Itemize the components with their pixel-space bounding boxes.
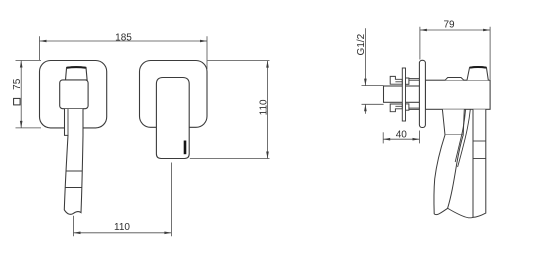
dim 185 ext line right [206,36,208,69]
svg-text:185: 185 [115,33,132,44]
dim 110 right line [267,61,269,159]
arrow square75 top [20,61,23,68]
handle knob (front) [66,67,88,80]
dim 79 arrow left [420,29,427,32]
lever rear curve line A [455,109,465,162]
cartridge housing line bottom inner [406,108,420,110]
handle body (front) [60,80,88,109]
cartridge housing line top outer [406,78,420,80]
dim 79 ext line left [419,27,421,60]
arrow square75 bottom [20,121,23,128]
lever neck (side) [442,109,464,134]
dim 79 line [420,29,490,31]
dim line square75 [20,61,22,128]
nut top inner line [395,81,402,83]
nub right top [406,78,409,84]
body top bump (side) [445,78,464,81]
spout blade joint line 2 [473,158,486,160]
dim 40 arrow left [383,138,390,141]
dim 79 ext line right [489,27,491,80]
dim 40 ext line left [382,132,384,143]
svg-text:110: 110 [258,99,269,115]
lever inner edge line [67,109,69,135]
spout (front) [156,78,189,159]
dim 110 bottom line [74,232,172,234]
mounting rod [402,68,405,121]
label square symbol [14,98,21,105]
mixer body (side) [425,80,490,109]
wall plate 1 (handle escutcheon) [40,61,107,128]
lever joint line 2 [65,187,82,189]
dim G1/2 line lower [364,104,366,114]
dim 185 line [40,40,208,42]
dim 40 ext line right [419,131,421,144]
wall plate (side) [419,60,425,127]
dim 40 line [383,138,419,140]
svg-text:79: 79 [443,19,455,30]
spout blade joint line 1 [473,140,486,142]
lever joint line 1 [66,170,82,172]
dim 110 bottom arrow left [74,232,81,235]
dim G1/2 ext line bottom [362,103,384,105]
svg-text:40: 40 [396,129,408,140]
dim 185 ext line left [39,36,41,60]
mounting nut top [390,76,402,84]
dim 79 arrow right [483,29,490,32]
dim 110 right arrow top [266,61,269,68]
dim 110 bottom ext line left [73,216,75,236]
handle knob top cap (front, thick) [67,66,86,69]
knob top cap (side, thick) [470,66,486,69]
dim G1/2 line upper [364,28,366,85]
dim 110 right ext line bottom [190,158,270,160]
dim G1/2 arrow lower [364,104,367,111]
cartridge housing line bottom outer [406,107,420,109]
break wave bridge [448,208,473,218]
dim 110 right arrow bottom [266,152,269,159]
dim 185 arrow left [40,40,47,43]
knob (side) [467,67,488,81]
svg-text:110: 110 [114,222,130,233]
spout blade (side) [473,109,486,217]
dim 40 arrow right [413,138,420,141]
wall plate 2 (spout escutcheon) [140,61,208,128]
mounting nut bottom [390,104,402,112]
dim G1/2 arrow upper [364,79,367,86]
dim ext line square75 top [16,60,42,62]
svg-text:75: 75 [12,78,23,90]
nub right bottom [406,104,409,110]
dim 110 bottom arrow right [164,232,171,235]
spout outlet slot [184,141,187,155]
inlet pipe (G1/2 stub) [384,86,420,102]
lever handle (front) [64,109,83,214]
dim 185 arrow right [200,40,207,43]
dim 110 bottom ext line right [170,163,172,237]
dim G1/2 ext line top [362,85,384,87]
dim ext line square75 bottom [16,127,42,129]
lever rear curve line B [458,109,471,167]
dim 110 right ext line top [208,60,270,62]
nut bottom inner line [395,105,402,107]
cartridge housing line top inner [406,79,420,81]
lever curved band (side) [434,135,463,215]
